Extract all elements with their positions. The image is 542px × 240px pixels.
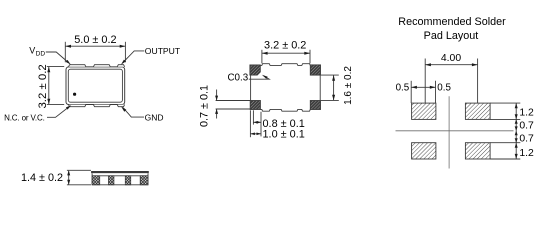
svg-text:4.00: 4.00: [441, 53, 461, 64]
bottom view pad top-right: [310, 65, 320, 75]
package outer outline: [66, 67, 125, 105]
svg-text:3.2 ± 0.2: 3.2 ± 0.2: [37, 64, 49, 108]
right dimension extension lines: [490, 103, 520, 159]
solder pad bottom-left: [412, 143, 436, 159]
side view seam line: [92, 175, 148, 177]
dimension 1.4 lines: [67, 170, 91, 185]
svg-text:GND: GND: [145, 112, 164, 122]
dimension 1.2 bottom arrows: [515, 143, 518, 148]
bottom edge tab 1: [69, 105, 86, 107]
dimension 1.0 arrows: [250, 133, 261, 135]
dimension 4.00 arrows: [425, 63, 431, 66]
top edge tab 2: [93, 65, 110, 67]
top edge tab 1: [69, 65, 86, 67]
side view body: [92, 173, 148, 184]
svg-text:Recommended Solder: Recommended Solder: [398, 16, 506, 28]
pin 1 dot: [73, 93, 76, 96]
solder pad bottom-right: [465, 143, 490, 159]
side view pad 1: [92, 176, 100, 185]
solder pad top-left: [412, 103, 436, 119]
svg-text:5.0 ± 0.2: 5.0 ± 0.2: [74, 34, 116, 46]
dimension 1.4 arrows: [67, 170, 70, 175]
bottom view pad top-left (chamfered): [250, 65, 260, 75]
bottom view body top edge: [260, 64, 310, 66]
svg-text:0.5: 0.5: [396, 82, 410, 93]
svg-text:OUTPUT: OUTPUT: [145, 46, 181, 56]
leader OUTPUT: [123, 51, 144, 63]
dimension 0.8 arrows: [253, 121, 261, 123]
dimension 0.7 bottom arrows: [515, 131, 518, 135]
dimension 0.7 top arrows: [515, 119, 518, 123]
bottom view pad bottom-right: [310, 101, 320, 110]
bottom edge tab 3: [117, 105, 124, 107]
dimension 4.00 lines: [425, 59, 477, 104]
leader N.C. or V.C.: [47, 107, 69, 117]
solder pad top-right: [465, 103, 490, 119]
centerline vertical: [448, 96, 450, 168]
dimension 3.2 line: [47, 67, 64, 105]
centerline horizontal: [396, 130, 514, 132]
dimension 0.5 lines: [411, 81, 435, 103]
leader GND: [123, 108, 144, 117]
leader VDD: [46, 52, 69, 63]
svg-text:1.2: 1.2: [519, 148, 534, 159]
svg-text:DD: DD: [36, 50, 46, 57]
svg-text:3.2 ± 0.2: 3.2 ± 0.2: [264, 39, 306, 51]
svg-text:0.7: 0.7: [519, 121, 534, 132]
dimension 3.2 arrows: [47, 67, 50, 73]
dimension 0.8 / 1.0 extension lines: [250, 110, 261, 137]
dimension 0.7 arrows: [215, 96, 218, 101]
bottom view body left edge: [250, 75, 252, 100]
svg-text:1.6 ± 0.2: 1.6 ± 0.2: [343, 66, 354, 105]
bottom view pad bottom-left: [250, 101, 260, 110]
svg-text:V: V: [29, 46, 35, 56]
dimension 1.6 lines: [321, 75, 339, 100]
svg-text:0.5: 0.5: [437, 82, 451, 93]
dimension 5.0 arrows: [65, 45, 71, 48]
bottom view body bottom edge: [260, 109, 310, 111]
svg-text:C0.3: C0.3: [227, 73, 248, 84]
side view pad 3: [125, 176, 130, 185]
dimension 1.2 top arrows: [515, 103, 518, 108]
svg-text:N.C. or V.C.: N.C. or V.C.: [4, 114, 45, 123]
svg-text:0.7: 0.7: [519, 133, 534, 144]
leader C0.3: [249, 76, 269, 80]
dimension 0.7 lines: [216, 90, 251, 119]
side view lid: [91, 171, 149, 173]
top edge tab 3: [117, 65, 124, 67]
bottom view body right edge: [319, 75, 321, 100]
dimension 3.2 arrows (middle): [262, 52, 268, 55]
package inner outline: [68, 69, 122, 102]
side view pad 4: [140, 176, 148, 185]
bottom edge tab 2: [93, 105, 110, 107]
dimension 0.5 arrows: [411, 86, 417, 89]
dimension 5.0 line: [65, 42, 125, 63]
dimension 1.6 arrows: [332, 75, 335, 81]
dimension 3.2 lines (middle): [262, 50, 310, 64]
side view pad 2: [109, 176, 114, 185]
svg-text:Pad Layout: Pad Layout: [424, 30, 479, 42]
svg-text:1.0 ± 0.1: 1.0 ± 0.1: [263, 128, 305, 140]
svg-text:1.2: 1.2: [519, 108, 534, 119]
svg-text:1.4 ± 0.2: 1.4 ± 0.2: [21, 172, 63, 184]
svg-text:0.7 ± 0.1: 0.7 ± 0.1: [198, 85, 210, 127]
